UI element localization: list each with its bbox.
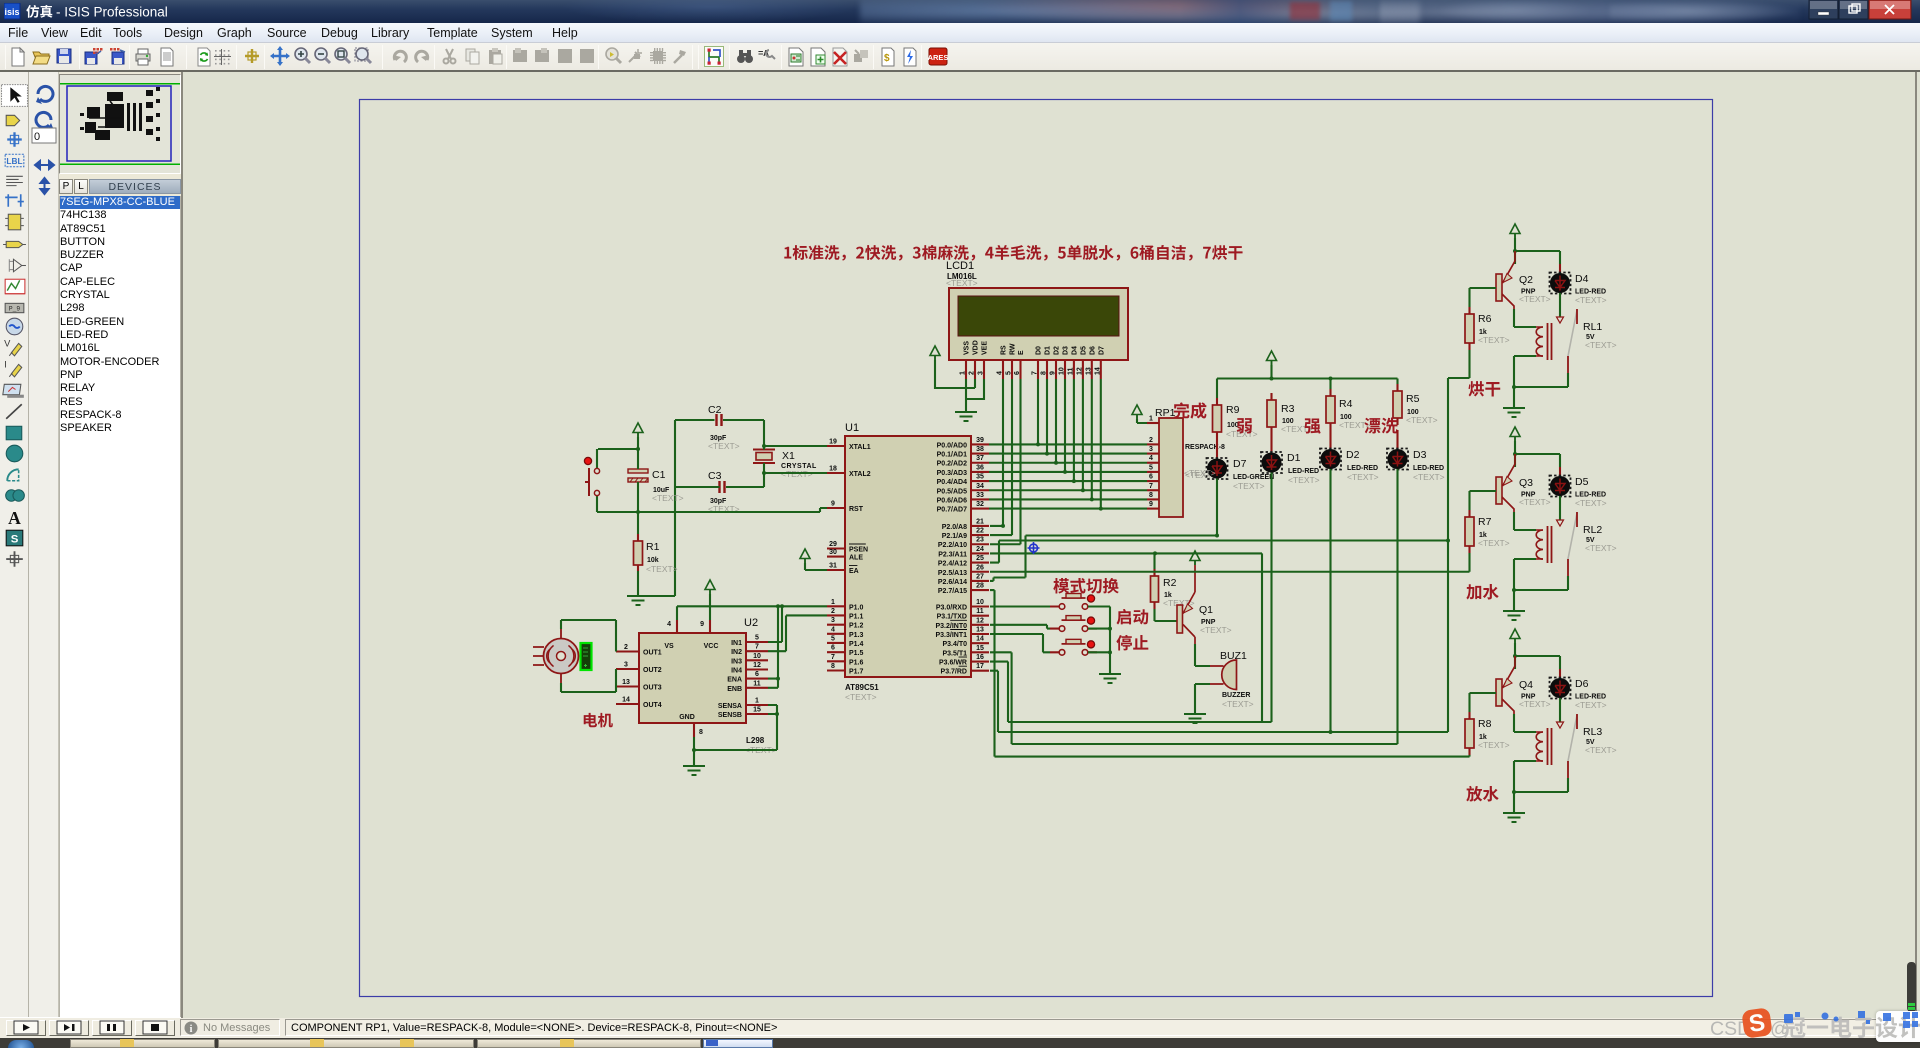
wire P3.6 net row722 [990, 662, 1272, 722]
svg-text:P1.6: P1.6 [849, 659, 864, 666]
svg-text:P2.1/A9: P2.1/A9 [942, 533, 967, 540]
svg-text:6: 6 [1149, 474, 1153, 481]
svg-text:10: 10 [1059, 367, 1066, 375]
svg-text:22: 22 [976, 528, 984, 535]
svg-text:<TEXT>: <TEXT> [1585, 745, 1617, 755]
relay RL3 [1536, 714, 1617, 778]
button start K2 [1050, 616, 1097, 632]
svg-text:P2.2/A10: P2.2/A10 [938, 542, 967, 549]
svg-text:<TEXT>: <TEXT> [1575, 295, 1607, 305]
svg-text:5: 5 [755, 635, 759, 642]
wire R8 bottom jog [1468, 755, 1470, 757]
ground RL3 [1503, 813, 1525, 822]
svg-text:27: 27 [976, 573, 984, 580]
wire relay RL1 bottom rail [1514, 356, 1568, 408]
svg-text:Q1: Q1 [1199, 604, 1213, 616]
svg-text:RL2: RL2 [1583, 524, 1602, 536]
LED D5 red [1550, 467, 1607, 508]
LED D4 red [1550, 264, 1607, 305]
resistor R2 [1151, 553, 1195, 609]
svg-text:<TEXT>: <TEXT> [1478, 538, 1510, 548]
svg-text:C1: C1 [652, 469, 666, 481]
svg-text:P0.7/AD7: P0.7/AD7 [937, 507, 967, 514]
wire D6 cathode [1559, 698, 1561, 722]
wire E to P2.2 [990, 379, 1021, 544]
ground U2 [683, 766, 705, 775]
resistor R6 [1465, 307, 1510, 350]
wire VEE to ground [967, 379, 985, 399]
svg-text:SENSA: SENSA [718, 703, 742, 710]
svg-text:AT89C51: AT89C51 [845, 683, 879, 692]
svg-text:P1.1: P1.1 [849, 613, 864, 620]
svg-text:8: 8 [699, 729, 703, 736]
svg-text:25: 25 [976, 555, 984, 562]
label 电机 red [584, 713, 613, 728]
wire Q4 collector to relay [1514, 714, 1536, 732]
svg-text:13: 13 [622, 679, 630, 686]
svg-text:0: 0 [34, 131, 40, 143]
svg-text:OUT2: OUT2 [643, 667, 662, 674]
svg-text:4: 4 [1149, 455, 1153, 462]
svg-text:11: 11 [976, 608, 984, 615]
svg-text:7: 7 [755, 644, 759, 651]
wire R1 bottom [637, 571, 639, 596]
svg-text:<TEXT>: <TEXT> [1347, 472, 1379, 482]
svg-text:D1: D1 [1045, 346, 1052, 355]
wire LED supply rail [1217, 365, 1398, 398]
svg-text:31: 31 [829, 563, 837, 570]
wire Q3 base [1470, 491, 1497, 510]
svg-text:2: 2 [1149, 437, 1153, 444]
svg-text:LED-GREEN: LED-GREEN [1233, 474, 1274, 481]
svg-text:P3.6/WR: P3.6/WR [939, 660, 967, 667]
svg-text:33: 33 [976, 492, 984, 499]
svg-text:LCD1: LCD1 [946, 260, 974, 272]
wire Q3 supply [1515, 441, 1560, 467]
wire P2.3 row to R2 and right [990, 553, 1262, 722]
svg-text:LED-RED: LED-RED [1347, 465, 1378, 472]
LCD LCD1 LM016L [949, 288, 1128, 360]
wire relay RL3 bottom rail [1514, 761, 1568, 813]
svg-text:IN4: IN4 [731, 668, 742, 675]
svg-text:RS: RS [1001, 345, 1008, 355]
svg-text:7: 7 [831, 654, 835, 661]
svg-text:RP1: RP1 [1155, 407, 1176, 419]
label 完成 red [1174, 402, 1207, 418]
svg-text:9: 9 [1050, 371, 1057, 375]
svg-text:<TEXT>: <TEXT> [1478, 335, 1510, 345]
wire P2.7 net row756 [990, 590, 1470, 757]
svg-text:P2.5/A13: P2.5/A13 [938, 570, 967, 577]
svg-text:RESPACK-8: RESPACK-8 [1185, 444, 1225, 451]
wire Q2 collector to relay [1514, 309, 1536, 327]
LCD1 labels [946, 260, 978, 288]
transistor Q3 PNP [1496, 454, 1551, 512]
svg-text:R8: R8 [1478, 718, 1492, 730]
svg-text:L298: L298 [746, 736, 765, 745]
svg-text:39: 39 [976, 437, 984, 444]
svg-text:2: 2 [831, 608, 835, 615]
power +5V Q1 [1190, 551, 1200, 561]
resistor R8 [1465, 712, 1510, 755]
wire D3 cathode long [1396, 469, 1398, 744]
label 停止 red [1116, 635, 1148, 651]
crystal X1 [753, 450, 817, 480]
svg-text:OUT1: OUT1 [643, 650, 662, 657]
svg-text:D4: D4 [1071, 346, 1078, 355]
svg-text:XTAL1: XTAL1 [849, 444, 871, 451]
wire reset top node [597, 437, 638, 469]
svg-text:D3: D3 [1413, 449, 1427, 461]
ground buttons [1099, 674, 1121, 683]
wire P3.4 net row744 to D3 [990, 652, 1398, 744]
svg-text:R3: R3 [1281, 403, 1295, 415]
svg-text:P2.4/A12: P2.4/A12 [938, 561, 967, 568]
marker origin blue [1028, 542, 1040, 554]
power +5V reset node [633, 423, 643, 433]
wire C1 to RST row [637, 482, 639, 534]
wire C2 C3 left ground rail [639, 420, 720, 596]
wire ENA ENB enable rail [768, 606, 778, 688]
capacitor C2 [708, 404, 740, 451]
svg-text:Q3: Q3 [1519, 477, 1533, 489]
chip U1 AT89C51 [845, 422, 971, 702]
label 模式切换 red [1053, 578, 1118, 594]
relay RL2 [1536, 512, 1617, 576]
svg-text:18: 18 [829, 466, 837, 473]
U2 top pins VS VCC [667, 620, 710, 633]
svg-text:11: 11 [753, 680, 761, 687]
svg-text:<TEXT>: <TEXT> [1200, 625, 1232, 635]
ground RL1 [1503, 408, 1525, 417]
svg-text:VDD: VDD [973, 340, 980, 355]
svg-text:VCC: VCC [704, 643, 719, 650]
svg-text:12: 12 [1076, 367, 1083, 375]
wire U2 VCC [709, 594, 711, 620]
svg-text:35: 35 [976, 474, 984, 481]
transistor Q1 PNP [1177, 565, 1232, 644]
ground LCD [955, 412, 977, 421]
svg-text:9: 9 [831, 501, 835, 508]
wires P0 bus rows [989, 444, 1147, 508]
LED D3 red [1387, 430, 1445, 482]
svg-text:P2.0/A8: P2.0/A8 [942, 524, 967, 531]
svg-text:VEE: VEE [982, 341, 989, 355]
transistor Q2 PNP [1496, 251, 1551, 309]
svg-text:P0.3/AD3: P0.3/AD3 [937, 470, 967, 477]
wire P1.0 IN1 VS net [677, 606, 827, 642]
svg-text:C3: C3 [708, 470, 722, 482]
wire D1 cathode long [1270, 473, 1272, 723]
button mode K1 [1050, 594, 1097, 610]
svg-text:P3.4/T0: P3.4/T0 [942, 641, 967, 648]
svg-text:RW: RW [1010, 343, 1017, 355]
svg-text:9: 9 [700, 621, 704, 628]
svg-text:isis: isis [4, 7, 19, 17]
svg-text:<TEXT>: <TEXT> [1575, 700, 1607, 710]
chip U2 L298 [639, 617, 777, 755]
svg-text:<TEXT>: <TEXT> [1222, 699, 1254, 709]
svg-text:P3.0/RXD: P3.0/RXD [936, 605, 967, 612]
label 强 red [1305, 418, 1321, 433]
svg-text:P2.6/A14: P2.6/A14 [938, 579, 967, 586]
svg-text:15: 15 [753, 707, 761, 714]
svg-text:<TEXT>: <TEXT> [946, 278, 978, 288]
svg-text:P3.2/INT0: P3.2/INT0 [935, 623, 967, 630]
svg-text:3: 3 [1149, 446, 1153, 453]
svg-text:23: 23 [976, 537, 984, 544]
svg-text:R7: R7 [1478, 516, 1492, 528]
svg-text:- ISIS Professional: - ISIS Professional [56, 5, 168, 20]
svg-text:6: 6 [755, 671, 759, 678]
wire R7 bottom jog [1468, 553, 1470, 572]
svg-text:<TEXT>: <TEXT> [1413, 472, 1445, 482]
power +5V RP1 [1132, 405, 1142, 415]
svg-text:RL1: RL1 [1583, 321, 1602, 333]
U1 right pins P0 P2 P3 [935, 437, 989, 676]
svg-text:RL3: RL3 [1583, 726, 1602, 738]
svg-text:32: 32 [976, 501, 984, 508]
svg-text:P0.6/AD6: P0.6/AD6 [937, 497, 967, 504]
svg-text:3: 3 [978, 371, 985, 375]
svg-text:P1.3: P1.3 [849, 632, 864, 639]
svg-text:9: 9 [1149, 501, 1153, 508]
resistor R3 [1267, 393, 1313, 434]
label 加水 red [1466, 584, 1498, 600]
svg-text:ENB: ENB [727, 686, 742, 693]
wire RW to P2.1 [990, 379, 1012, 535]
svg-text:19: 19 [829, 439, 837, 446]
svg-text:<TEXT>: <TEXT> [708, 441, 740, 451]
U2 right pins IN1-IN4 ENA ENB SENSA SENSB [718, 635, 768, 720]
svg-text:7: 7 [1149, 483, 1153, 490]
svg-text:LED-RED: LED-RED [1413, 465, 1444, 472]
power +5V EA [800, 549, 810, 559]
wire RS to P2.0 [990, 379, 1003, 526]
svg-text:<TEXT>: <TEXT> [646, 564, 678, 574]
svg-text:IN2: IN2 [731, 649, 742, 656]
svg-text:BUZZER: BUZZER [1222, 692, 1250, 699]
resistor R1 [634, 534, 678, 574]
svg-text:13: 13 [976, 627, 984, 634]
svg-text:<TEXT>: <TEXT> [1519, 699, 1551, 709]
svg-text:8: 8 [1041, 371, 1048, 375]
svg-text:D7: D7 [1098, 346, 1105, 355]
svg-text:3: 3 [624, 662, 628, 669]
svg-text:P0.1/AD1: P0.1/AD1 [937, 452, 967, 459]
capacitor C1 electrolytic [628, 469, 684, 503]
svg-text:RST: RST [849, 506, 864, 513]
svg-text:<TEXT>: <TEXT> [1478, 740, 1510, 750]
power +5V LED rail [1267, 351, 1277, 361]
svg-text:36: 36 [976, 464, 984, 471]
RP1 pins [1147, 416, 1159, 509]
wire P3.5 to button3 [990, 634, 1050, 652]
svg-text:Q4: Q4 [1519, 679, 1533, 691]
button RESET [584, 457, 599, 496]
svg-text:P3.1/TXD: P3.1/TXD [937, 614, 967, 621]
svg-text:5: 5 [1149, 464, 1153, 471]
svg-text:U2: U2 [744, 617, 758, 629]
svg-text:OUT3: OUT3 [643, 685, 662, 692]
svg-text:OUT4: OUT4 [643, 702, 662, 709]
svg-text:7: 7 [1032, 371, 1039, 375]
svg-text:10k: 10k [647, 557, 659, 564]
resistor R7 [1465, 510, 1510, 553]
svg-text:R9: R9 [1226, 404, 1240, 416]
button stop K3 [1050, 639, 1097, 655]
wire relay RL2 bottom rail [1514, 559, 1568, 611]
svg-text:P1.0: P1.0 [849, 604, 864, 611]
svg-text:D5: D5 [1080, 346, 1087, 355]
svg-text:100: 100 [1227, 422, 1239, 429]
svg-text:Q2: Q2 [1519, 274, 1533, 286]
label 烘干 red [1468, 381, 1500, 396]
motor M encoder [533, 629, 592, 683]
resistor R5 [1393, 384, 1438, 425]
svg-text:1: 1 [960, 371, 967, 375]
wire Q2 supply [1515, 238, 1560, 264]
svg-text:C2: C2 [708, 404, 722, 416]
svg-text:17: 17 [976, 663, 984, 670]
wire buzzer to ground [1195, 684, 1210, 714]
svg-text:IN3: IN3 [731, 658, 742, 665]
svg-text:30: 30 [829, 549, 837, 556]
svg-text:<TEXT>: <TEXT> [1585, 340, 1617, 350]
svg-text:28: 28 [976, 583, 984, 590]
svg-text:P1.7: P1.7 [849, 668, 864, 675]
svg-text:P3.7/RD: P3.7/RD [941, 669, 967, 676]
wire R6 net row540 [990, 378, 1448, 732]
svg-text:D2: D2 [1054, 346, 1061, 355]
svg-text:XTAL2: XTAL2 [849, 471, 871, 478]
svg-text:16: 16 [976, 654, 984, 661]
svg-text:S: S [11, 534, 19, 546]
svg-text:12: 12 [976, 617, 984, 624]
wire VSS to ground [965, 379, 967, 412]
svg-text:D6: D6 [1089, 346, 1096, 355]
label 启动 red [1116, 609, 1148, 625]
resistor R4 [1326, 389, 1371, 430]
svg-text:P2.7/A15: P2.7/A15 [938, 588, 967, 595]
svg-text:<TEXT>: <TEXT> [1585, 543, 1617, 553]
wire P3.2 to button2 [990, 625, 1050, 629]
svg-text:ARES: ARES [928, 53, 948, 62]
ground crystal caps [627, 596, 649, 605]
svg-text:BUZ1: BUZ1 [1220, 650, 1247, 662]
title text red [784, 245, 1242, 261]
svg-text:8: 8 [831, 663, 835, 670]
svg-text:P3.5/T1: P3.5/T1 [942, 650, 967, 657]
wire D4 cathode [1559, 293, 1561, 317]
wire R2 to Q1 base [1155, 609, 1178, 621]
svg-text:IN1: IN1 [731, 640, 742, 647]
svg-text:LBL: LBL [6, 156, 22, 166]
svg-text:34: 34 [976, 483, 984, 490]
svg-text:i: i [190, 1024, 193, 1035]
svg-text:26: 26 [976, 564, 984, 571]
svg-text:VSS: VSS [964, 341, 971, 355]
wire R6 bottom jog [1448, 350, 1470, 378]
svg-text:D0: D0 [1036, 346, 1043, 355]
LED D6 red [1550, 669, 1607, 710]
svg-text:<TEXT>: <TEXT> [845, 692, 877, 702]
svg-text:<TEXT>: <TEXT> [1575, 498, 1607, 508]
svg-text:P0.5/AD5: P0.5/AD5 [937, 488, 967, 495]
svg-text:D6: D6 [1575, 678, 1589, 690]
svg-text:1: 1 [831, 599, 835, 606]
wire EA [805, 563, 827, 570]
wire Q2 base [1470, 288, 1497, 307]
svg-text:R5: R5 [1406, 393, 1420, 405]
wire buttons ground rail [1088, 607, 1110, 675]
LED D7 green [1184, 439, 1274, 491]
svg-text:A: A [8, 508, 21, 528]
resistor pack RP1 RESPACK-8 [1155, 407, 1225, 517]
svg-text:GND: GND [679, 714, 695, 721]
wire Q4 supply [1515, 643, 1560, 669]
wire motor to OUT2 [561, 669, 616, 692]
svg-text:ALE: ALE [849, 555, 863, 562]
svg-text:38: 38 [976, 446, 984, 453]
svg-text:37: 37 [976, 455, 984, 462]
svg-text:D4: D4 [1575, 273, 1589, 285]
svg-text:R2: R2 [1163, 577, 1177, 589]
wire D5 cathode [1559, 496, 1561, 520]
svg-text:E: E [1018, 350, 1025, 355]
wire RP1 pin1 [1137, 419, 1147, 423]
svg-text:D2: D2 [1346, 449, 1360, 461]
svg-text:2: 2 [969, 371, 976, 375]
svg-text:8: 8 [1149, 492, 1153, 499]
svg-text:5: 5 [831, 635, 835, 642]
U2 left pins OUT1-OUT4 [616, 644, 662, 709]
svg-text:10: 10 [976, 599, 984, 606]
svg-text:6: 6 [831, 645, 835, 652]
svg-text:4: 4 [831, 626, 835, 633]
wire P1.1 IN2 [768, 615, 827, 651]
svg-text:V: V [4, 338, 11, 348]
wire Q4 base [1470, 693, 1497, 712]
wires LCD data D0-D7 to P0 bus [1036, 379, 1103, 511]
svg-text:P2.3/A11: P2.3/A11 [938, 551, 967, 558]
svg-text:6: 6 [1014, 371, 1021, 375]
buzzer BUZ1 [1210, 650, 1254, 709]
wire D2 cathode long [1329, 469, 1331, 732]
svg-text:14: 14 [1094, 367, 1101, 375]
svg-text:14: 14 [622, 697, 630, 704]
svg-text:LED-RED: LED-RED [1288, 468, 1319, 475]
power +5V Q4 [1510, 629, 1520, 639]
wire D7 cathode [990, 479, 1217, 581]
svg-text:PSEN: PSEN [849, 547, 868, 554]
wire Q3 collector to relay [1514, 512, 1536, 530]
svg-text:<TEXT>: <TEXT> [1233, 481, 1265, 491]
svg-text:1: 1 [1149, 416, 1153, 423]
wire VDD [935, 360, 975, 388]
relay RL1 [1536, 309, 1617, 373]
svg-text:P3.3/INT1: P3.3/INT1 [935, 632, 967, 639]
svg-text:X1: X1 [782, 450, 795, 462]
label 弱 red [1237, 418, 1252, 433]
svg-text:15: 15 [976, 645, 984, 652]
svg-text:P0.4/AD4: P0.4/AD4 [937, 479, 967, 486]
svg-text:<TEXT>: <TEXT> [1339, 420, 1371, 430]
svg-text:ENA: ENA [727, 677, 742, 684]
wire Q1 collector to buzzer [1195, 644, 1210, 666]
svg-text:<TEXT>: <TEXT> [1406, 415, 1438, 425]
svg-text:P1.4: P1.4 [849, 641, 864, 648]
